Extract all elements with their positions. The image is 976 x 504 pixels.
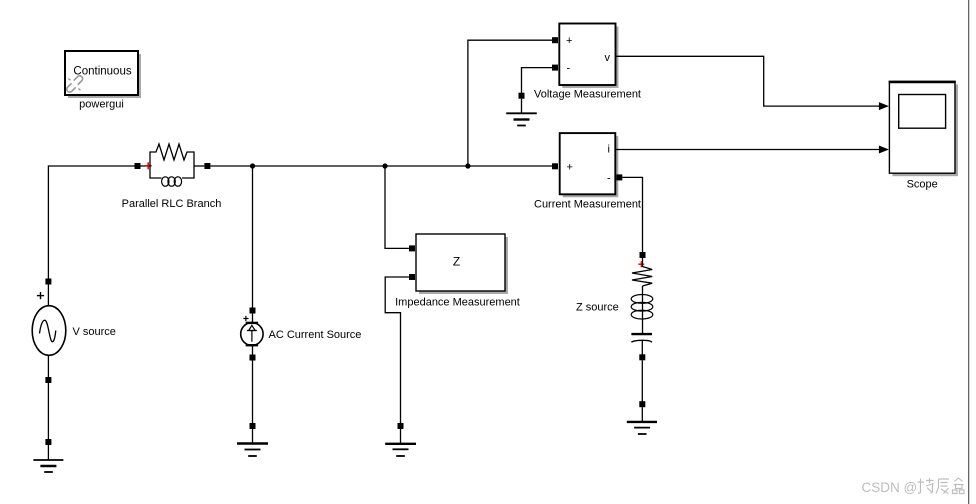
AC Current Source bottom port: [250, 355, 256, 361]
V source sine icon: [40, 320, 56, 341]
wire: main node down to AC Current Source: [252, 166, 254, 310]
V source body (AC voltage source): [32, 306, 66, 356]
arrowhead i into Scope: [879, 146, 889, 154]
svg-text:AC Current Source: AC Current Source: [269, 329, 362, 341]
wire: V source bottom to port: [47, 355, 49, 380]
wire: Current Measurement minus to Z source: [622, 177, 642, 255]
AC Current Source top port: [250, 308, 256, 314]
Z source resistor R (vertical zigzag): [632, 258, 652, 286]
canvas right border: [968, 0, 970, 504]
watermark CJK glyphs: [918, 478, 965, 494]
V source top port: [45, 279, 51, 285]
svg-text:Z source: Z source: [576, 302, 619, 314]
Voltage Measurement U3 block: [559, 24, 615, 86]
Current Measurement plus port: [552, 163, 558, 169]
wire: AC source bottom to port: [252, 345, 254, 357]
AC Current Source polarity +: [243, 316, 248, 321]
resistor-inductor Parallel RLC Branch left port: [135, 163, 141, 169]
svg-text:V source: V source: [73, 326, 116, 338]
svg-text:Scope: Scope: [907, 179, 938, 191]
ground G5 port: [639, 401, 645, 407]
Parallel RLC Branch right port: [204, 163, 210, 169]
wire: voltage measurement plus input to main node: [468, 40, 552, 166]
ground G1: [33, 445, 63, 472]
AC Current Source flat chords: [246, 323, 258, 345]
wire: voltage measurement minus input to ground G4: [522, 68, 553, 96]
wire: port to V source body: [47, 284, 49, 306]
V source polarity +: [37, 292, 44, 299]
arrowhead v into Scope: [879, 102, 889, 110]
Parallel RLC Branch polarity + (red): [145, 162, 152, 169]
ground G4 port: [519, 93, 525, 99]
ground G3: [385, 429, 416, 456]
wire: V source top to main node: [48, 166, 150, 284]
watermark CSDN: [862, 480, 918, 495]
wire: RLC stub right port: [194, 165, 204, 167]
ground G2: [237, 429, 268, 456]
Z source inductor L (vertical coil): [631, 286, 653, 333]
wire: v signal to Scope input 1: [616, 56, 880, 106]
Voltage Measurement minus port: [552, 65, 558, 71]
Z source top port: [640, 252, 646, 258]
wire: port to AC source body: [252, 314, 254, 324]
svg-text:Parallel RLC Branch: Parallel RLC Branch: [122, 198, 222, 210]
Current Measurement U4 shadow: [563, 136, 619, 197]
svg-text:Z: Z: [453, 255, 460, 269]
wire: main horizontal net: [210, 165, 552, 167]
wire: V source to ground G1: [47, 383, 49, 442]
Scope U5 block: [889, 81, 956, 173]
svg-text:-: -: [567, 63, 571, 75]
V source bottom port: [45, 377, 51, 383]
wire: capacitor to Z source bottom port: [641, 340, 643, 357]
ground G1 port: [45, 439, 51, 445]
svg-text:i: i: [608, 143, 610, 155]
node junction J2: [382, 163, 387, 168]
node junction J1: [250, 163, 255, 168]
Z source polarity + (red): [638, 261, 644, 267]
wire: Z source to ground G5: [641, 360, 643, 404]
Voltage Measurement plus port: [552, 37, 558, 43]
wire: i signal to Scope input 2: [615, 149, 879, 151]
node junction J3: [465, 163, 470, 168]
wire: Impedance Measurement minus input to ground G3: [385, 277, 409, 426]
Impedance Measurement U2 block: [416, 234, 505, 291]
Current Measurement minus port: [616, 174, 622, 180]
svg-text:+: +: [566, 35, 572, 47]
Z source capacitor C: [631, 334, 652, 342]
Scope U5 shadow: [892, 84, 958, 176]
powergui U1 shadow: [68, 54, 141, 98]
Current Measurement U4 block: [560, 133, 616, 194]
ground G3 port: [398, 423, 404, 429]
svg-text:Voltage Measurement: Voltage Measurement: [534, 89, 641, 101]
svg-text:-: -: [607, 172, 611, 184]
svg-text:Impedance Measurement: Impedance Measurement: [395, 297, 520, 309]
Impedance Measurement U2 shadow: [419, 237, 508, 294]
ground G4: [506, 99, 537, 126]
svg-text:powergui: powergui: [79, 99, 124, 111]
svg-text:+: +: [567, 161, 573, 173]
wire: main node to Impedance Measurement plus input: [385, 166, 409, 248]
Parallel RLC Branch body: bracket + resistor R: [150, 144, 194, 178]
Impedance Measurement plus port: [409, 245, 415, 251]
AC Current Source body: [241, 323, 263, 346]
wire: AC source to ground G2: [252, 361, 254, 427]
Z source bottom port: [639, 354, 645, 360]
ground G5: [627, 407, 657, 434]
Impedance Measurement minus port: [409, 274, 415, 280]
powergui broken-link icon: [66, 75, 84, 94]
Voltage Measurement U3 shadow: [562, 27, 618, 89]
svg-text:v: v: [605, 52, 611, 64]
svg-text:Continuous: Continuous: [73, 66, 131, 78]
ground G2 port: [250, 423, 256, 429]
powergui U1 block: [65, 51, 138, 95]
AC Current Source arrow icon: [247, 325, 257, 341]
svg-text:CSDN @: CSDN @: [862, 480, 918, 495]
Parallel RLC Branch inductor L loops: [162, 177, 182, 186]
svg-text:Current Measurement: Current Measurement: [534, 199, 641, 211]
